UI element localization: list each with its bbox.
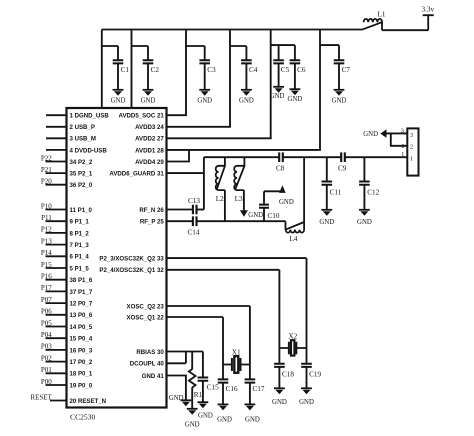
wire to C11: [326, 157, 328, 181]
pin 17 P0_2 stub: [46, 361, 67, 363]
wire rail drop 2 to IC top: [131, 30, 133, 109]
svg-text:R1: R1: [194, 391, 203, 399]
wire C15 top: [202, 352, 204, 377]
svg-text:AVDD6_GUARD 31: AVDD6_GUARD 31: [109, 171, 164, 178]
wire RF junction vertical: [203, 157, 205, 209]
svg-text:AVDD1 28: AVDD1 28: [135, 147, 164, 154]
wire GND pin 41: [167, 376, 186, 401]
svg-text:19 P0_0: 19 P0_0: [70, 382, 93, 389]
svg-text:C14: C14: [188, 229, 200, 237]
svg-text:GND: GND: [111, 97, 126, 104]
capacitor C3: [199, 60, 210, 63]
wire top 3.3V rail: [102, 29, 362, 31]
pin 5 P1_5 stub: [46, 267, 67, 269]
svg-text:P04: P04: [41, 331, 52, 339]
svg-text:C10: C10: [268, 212, 280, 220]
svg-text:5 P1_5: 5 P1_5: [70, 265, 90, 272]
wire rail to pin 28 AVDD1: [167, 30, 321, 150]
svg-text:GND: GND: [239, 97, 254, 104]
svg-text:6 P1_4: 6 P1_4: [70, 254, 90, 261]
svg-text:P00: P00: [41, 378, 52, 386]
pin 16 P0_3 stub: [46, 349, 67, 351]
ground connector left arrow: [380, 129, 386, 137]
svg-text:P10: P10: [41, 202, 52, 210]
wire XOSC_Q1 pin 22: [167, 316, 224, 318]
wire pin 31 AVDD6_GUARD: [167, 172, 204, 174]
svg-text:P2_4/XOSC32K_Q1 32: P2_4/XOSC32K_Q1 32: [99, 267, 164, 274]
svg-text:3 USB_M: 3 USB_M: [70, 136, 96, 143]
wire rail to pin 21 AVDD5_SOC: [167, 30, 187, 116]
capacitor C11: [322, 182, 333, 185]
wire RF top line left: [204, 156, 279, 158]
ground C17: [245, 403, 256, 405]
wire L2 bottom to RF_P line: [224, 190, 226, 221]
ground pin 41: [181, 399, 192, 401]
svg-text:L2: L2: [216, 195, 224, 203]
svg-text:P20: P20: [41, 178, 52, 186]
wire branch to C4: [230, 46, 246, 60]
pin 12 P0_7 stub: [46, 302, 67, 304]
svg-text:P03: P03: [41, 343, 52, 351]
wire RF_P pin 25: [167, 220, 193, 222]
svg-text:XOSC_Q2 23: XOSC_Q2 23: [127, 303, 165, 310]
svg-text:C16: C16: [226, 385, 238, 393]
svg-text:C6: C6: [297, 66, 306, 74]
svg-text:GND: GND: [272, 399, 287, 406]
wire L3 bottom: [243, 190, 245, 210]
ground C19: [301, 387, 312, 389]
svg-text:X2: X2: [288, 333, 297, 341]
capacitor C12: [359, 182, 370, 185]
svg-text:P07: P07: [41, 296, 52, 304]
wire X1 right leg: [249, 306, 251, 379]
wire L1 to 3.3v: [382, 29, 428, 31]
ground C5: [273, 86, 284, 88]
capacitor C17: [245, 379, 256, 382]
svg-text:GND: GND: [141, 97, 156, 104]
svg-text:8 P1_2: 8 P1_2: [70, 230, 90, 237]
pin 3 USB_M stub: [46, 137, 67, 139]
ground C12: [359, 209, 370, 211]
capacitor C13: [193, 205, 197, 215]
svg-text:17 P0_2: 17 P0_2: [70, 359, 93, 366]
svg-text:12 P0_7: 12 P0_7: [70, 301, 93, 308]
capacitor C16: [218, 379, 229, 382]
svg-text:L3: L3: [235, 195, 243, 203]
svg-text:15 P0_4: 15 P0_4: [70, 336, 93, 343]
svg-text:P2_3/XOSC32K_Q2 33: P2_3/XOSC32K_Q2 33: [99, 256, 164, 263]
wire RF_P line to L4: [197, 220, 286, 222]
pin 7 P1_3 stub: [46, 244, 67, 246]
svg-text:38 P1_6: 38 P1_6: [70, 277, 93, 284]
svg-text:P01: P01: [41, 366, 52, 374]
wire pin 29 AVDD4 to pin28 line: [167, 150, 190, 162]
svg-text:GND: GND: [217, 416, 232, 423]
pin 15 P0_4 stub: [46, 337, 67, 339]
wire P2_3/XOSC32K_Q2 pin 33: [167, 257, 307, 259]
svg-text:RESET: RESET: [30, 393, 52, 401]
wire connector pin 2 to pin 3: [391, 133, 408, 145]
svg-text:GND: GND: [270, 93, 285, 100]
svg-text:18 P0_1: 18 P0_1: [70, 371, 93, 378]
svg-text:GND: GND: [288, 96, 303, 103]
svg-text:X1: X1: [232, 348, 241, 356]
pin 38 P1_6 stub: [46, 279, 67, 281]
svg-text:C19: C19: [309, 371, 321, 379]
pin 9 P1_1 stub: [46, 220, 67, 222]
pin 1 DGND_USB stub: [46, 114, 67, 116]
svg-text:RF_P 25: RF_P 25: [140, 219, 165, 226]
capacitor C1: [113, 60, 124, 63]
capacitor C5: [273, 60, 284, 63]
power 3.3v: [423, 15, 434, 30]
wire P2_4/XOSC32K_Q1 pin 32: [167, 269, 280, 271]
svg-text:GND: GND: [198, 413, 213, 420]
svg-text:C11: C11: [330, 189, 342, 197]
resistor R1: [191, 352, 193, 370]
svg-text:L4: L4: [290, 235, 298, 243]
ground C15: [198, 401, 209, 403]
ground C2: [143, 89, 154, 91]
svg-text:P16: P16: [41, 273, 52, 281]
svg-text:C15: C15: [207, 384, 219, 392]
pin 14 P0_5 stub: [46, 326, 67, 328]
inductor L1: [364, 19, 382, 22]
pin 8 P1_2 stub: [46, 232, 67, 234]
svg-text:34 P2_2: 34 P2_2: [70, 159, 93, 166]
wire X2 left leg: [278, 270, 280, 363]
capacitor C9: [341, 152, 345, 162]
wire rail to pin 27 AVDD2: [167, 30, 271, 139]
svg-text:GND: GND: [185, 421, 200, 428]
svg-text:CC2530: CC2530: [70, 413, 96, 422]
wire rail to pin 24 AVDD3: [167, 30, 231, 127]
svg-text:37 P1_7: 37 P1_7: [70, 289, 93, 296]
capacitor C15: [198, 378, 209, 381]
svg-text:XOSC_Q1 22: XOSC_Q1 22: [127, 314, 165, 321]
svg-text:P11: P11: [41, 214, 52, 222]
IC U1 CC2530 body: [67, 108, 167, 408]
svg-text:7 P1_3: 7 P1_3: [70, 242, 90, 249]
svg-text:P15: P15: [41, 261, 52, 269]
wire X2 right leg: [306, 258, 308, 363]
svg-text:C8: C8: [276, 165, 285, 173]
svg-text:RF_N 26: RF_N 26: [139, 207, 164, 214]
crystal X1: [232, 358, 241, 371]
pin 36 P2_0 stub: [46, 184, 67, 186]
svg-text:GND: GND: [299, 399, 314, 406]
capacitor C4: [241, 60, 252, 63]
ground C11: [321, 209, 332, 211]
svg-text:11 P1_0: 11 P1_0: [70, 207, 93, 214]
pin 37 P1_7 stub: [46, 290, 67, 292]
svg-text:P05: P05: [41, 319, 52, 327]
svg-text:P21: P21: [41, 166, 52, 174]
svg-text:1: 1: [401, 151, 404, 158]
pin 18 P0_1 stub: [46, 372, 67, 374]
capacitor C19: [301, 364, 312, 367]
svg-text:3: 3: [401, 127, 404, 134]
wire RF top line to connector: [345, 156, 408, 158]
wire DCOUPL pin 40: [167, 352, 186, 364]
connector J1 antenna: [407, 128, 418, 175]
svg-text:C3: C3: [207, 66, 216, 74]
ground C16: [218, 403, 229, 405]
svg-text:20 RESET_N: 20 RESET_N: [70, 398, 107, 405]
svg-text:C9: C9: [338, 165, 347, 173]
svg-text:GND: GND: [363, 131, 378, 138]
wire RF top line mid: [283, 156, 341, 158]
svg-text:2: 2: [402, 143, 405, 150]
svg-text:2: 2: [410, 144, 413, 151]
svg-text:C17: C17: [253, 385, 265, 393]
svg-text:AVDD5_SOC 21: AVDD5_SOC 21: [119, 113, 165, 120]
pin 34 P2_2 stub: [46, 161, 67, 163]
pin 2 USB_P stub: [46, 126, 67, 128]
wire R1 bottom: [191, 387, 193, 409]
ground C3: [199, 89, 210, 91]
svg-text:GND: GND: [332, 97, 347, 104]
wire branch to C7: [320, 45, 339, 59]
inductor L2: [216, 166, 219, 190]
capacitor C8: [279, 152, 283, 162]
wire branch to C1: [102, 46, 118, 60]
capacitor C18: [274, 364, 285, 367]
svg-text:GND 41: GND 41: [142, 373, 165, 380]
ground C6: [290, 88, 301, 90]
svg-text:4 DVDD-USB: 4 DVDD-USB: [70, 147, 108, 154]
svg-text:C7: C7: [342, 66, 351, 74]
svg-text:GND: GND: [357, 219, 372, 226]
svg-text:1: 1: [410, 155, 413, 162]
ground C1: [113, 89, 124, 91]
wire rail drop to IC top left: [101, 30, 103, 109]
wire X1 left leg: [222, 317, 224, 379]
svg-text:3: 3: [410, 132, 413, 139]
svg-text:RBIAS 30: RBIAS 30: [136, 349, 164, 356]
svg-text:GND: GND: [319, 219, 334, 226]
svg-text:13 P0_6: 13 P0_6: [70, 312, 93, 319]
wire branch to C3: [186, 46, 205, 60]
svg-text:C5: C5: [281, 66, 290, 74]
inductor L4: [286, 230, 304, 233]
svg-text:9 P1_1: 9 P1_1: [70, 219, 90, 226]
svg-text:AVDD3 24: AVDD3 24: [135, 124, 164, 131]
svg-text:P14: P14: [41, 249, 52, 257]
svg-text:GND: GND: [279, 199, 294, 206]
svg-text:2 USB_P: 2 USB_P: [70, 124, 95, 131]
svg-text:C13: C13: [188, 197, 200, 205]
svg-text:GND: GND: [169, 395, 184, 402]
ground R1: [187, 408, 198, 410]
ground C7: [334, 89, 345, 91]
crystal X2: [289, 342, 296, 354]
pin 11 P1_0 stub: [46, 209, 67, 211]
wire to C12: [363, 157, 365, 181]
pin 35 P2_1 stub: [46, 172, 67, 174]
capacitor C6: [290, 60, 301, 63]
svg-text:AVDD4 29: AVDD4 29: [135, 159, 164, 166]
svg-text:35 P2_1: 35 P2_1: [70, 171, 93, 178]
ground C10 up arrow: [279, 185, 286, 193]
svg-text:14 P0_5: 14 P0_5: [70, 324, 93, 331]
pin 19 P0_0 stub: [46, 384, 67, 386]
svg-text:C12: C12: [367, 189, 379, 197]
wire RBIAS pin 30: [167, 351, 203, 353]
svg-text:C1: C1: [121, 66, 130, 74]
inductor L3: [234, 166, 237, 190]
svg-text:3.3v: 3.3v: [422, 6, 435, 14]
wire C10 to GND arrow: [264, 190, 282, 192]
pin 6 P1_4 stub: [46, 255, 67, 257]
svg-text:C2: C2: [151, 66, 160, 74]
svg-text:16 P0_3: 16 P0_3: [70, 347, 93, 354]
svg-text:GND: GND: [245, 416, 260, 423]
capacitor C2: [143, 60, 154, 63]
wire branch to C2: [132, 46, 149, 60]
wire XOSC_Q2 pin 23: [167, 305, 250, 307]
capacitor C14: [193, 216, 197, 226]
pin 13 P0_6 stub: [46, 314, 67, 316]
svg-text:P02: P02: [41, 354, 52, 362]
svg-text:AVDD2 27: AVDD2 27: [135, 136, 164, 143]
svg-text:P22: P22: [41, 154, 52, 162]
wire RF_N pin 26: [167, 209, 193, 211]
capacitor C10: [259, 205, 269, 208]
ground C18: [274, 387, 285, 389]
svg-text:GND: GND: [197, 97, 212, 104]
pin 20 RESET_N stub: [50, 400, 67, 402]
wire connector pin 3 to GND: [386, 132, 408, 134]
svg-text:P17: P17: [41, 284, 52, 292]
capacitor C7: [334, 60, 345, 63]
svg-text:36 P2_0: 36 P2_0: [70, 182, 93, 189]
ground L3 arrow: [240, 210, 248, 217]
svg-text:C18: C18: [282, 371, 294, 379]
svg-text:C4: C4: [249, 66, 258, 74]
svg-text:P06: P06: [41, 308, 52, 316]
svg-text:L1: L1: [378, 11, 386, 19]
svg-text:GND: GND: [248, 212, 263, 219]
svg-text:P12: P12: [41, 226, 52, 234]
ground C4: [241, 89, 252, 91]
wire branch to C5 C6: [271, 44, 295, 46]
svg-text:DCOUPL 40: DCOUPL 40: [130, 361, 165, 368]
svg-text:1 DGND_USB: 1 DGND_USB: [70, 113, 110, 120]
wire C10 top: [263, 191, 265, 204]
pin 4 DVDD-USB stub: [46, 149, 67, 151]
svg-text:P13: P13: [41, 237, 52, 245]
